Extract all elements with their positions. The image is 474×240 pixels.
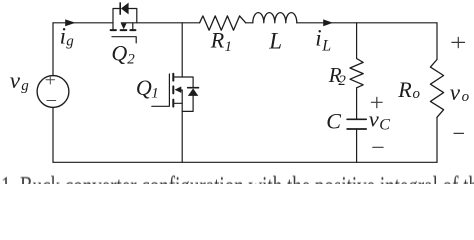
wire: Ro branch vertical (top) [436, 23, 438, 60]
annotation vo (+ sign) [452, 37, 465, 47]
label R1 [210, 28, 232, 55]
wire: top rail R1-to-L segment [246, 22, 253, 24]
resistor R2 [350, 59, 363, 88]
label R2 [328, 63, 347, 89]
svg-text:o: o [462, 89, 470, 105]
label Ro [397, 77, 420, 102]
svg-text:2: 2 [127, 51, 135, 67]
voltage source vg [37, 75, 69, 107]
annotation vC (+ sign) [371, 97, 382, 107]
wire: top rail from Q2 body/source to R1 [121, 22, 199, 24]
svg-text:Q: Q [111, 40, 127, 65]
svg-text:1: 1 [225, 39, 233, 55]
wire: R2 to capacitor [356, 88, 358, 119]
svg-text:v: v [10, 68, 21, 93]
annotation vC (- sign) [373, 146, 383, 148]
label ig [60, 24, 75, 50]
svg-text:C: C [379, 117, 390, 134]
wire: top rail from L to right corner [297, 22, 437, 24]
body diode of Q1 [182, 77, 198, 111]
wire: top rail left segment (corner to Q2 drain) [53, 22, 113, 24]
svg-text:g: g [21, 78, 29, 94]
svg-text:i: i [60, 24, 66, 49]
svg-text:v: v [450, 80, 461, 105]
annotation vo (- sign) [454, 132, 464, 134]
svg-text:o: o [413, 86, 421, 102]
svg-text:i: i [315, 26, 321, 51]
inductor L [253, 13, 297, 23]
label iL [315, 26, 331, 55]
wire: left branch vertical (vg to rails) [52, 23, 54, 163]
wire: capacitor to bottom rail [356, 130, 358, 162]
svg-text:R: R [210, 28, 225, 53]
svg-text:L: L [268, 29, 282, 54]
label vC [369, 106, 391, 133]
transistor Q2 (horizontal MOSFET) [111, 23, 137, 43]
wire: Ro to bottom rail [436, 117, 438, 162]
label Q1 [136, 75, 159, 102]
wire: R2/C branch vertical (top) [356, 23, 358, 59]
label Q2 [111, 40, 135, 67]
current arrow ig [65, 19, 75, 26]
svg-text:C: C [326, 108, 341, 133]
caption (cut off at bottom edge) [1, 173, 474, 201]
resistor R1 [200, 16, 246, 30]
current arrow iL [323, 19, 333, 26]
svg-text:g: g [66, 33, 74, 49]
label C [326, 108, 341, 133]
capacitor C [347, 119, 366, 129]
resistor Ro [430, 60, 443, 118]
svg-text:L: L [321, 38, 331, 55]
svg-text:2: 2 [338, 73, 346, 89]
svg-text:1: 1 [151, 86, 159, 102]
label vg [10, 68, 30, 94]
svg-text:Q: Q [136, 75, 152, 100]
body diode of Q2 [113, 3, 137, 23]
label L [268, 29, 282, 54]
transistor Q1 (vertical MOSFET) [152, 23, 182, 163]
label vo [450, 80, 470, 105]
svg-text:R: R [397, 77, 412, 102]
svg-text:v: v [369, 106, 379, 131]
wire: bottom rail [53, 161, 437, 163]
